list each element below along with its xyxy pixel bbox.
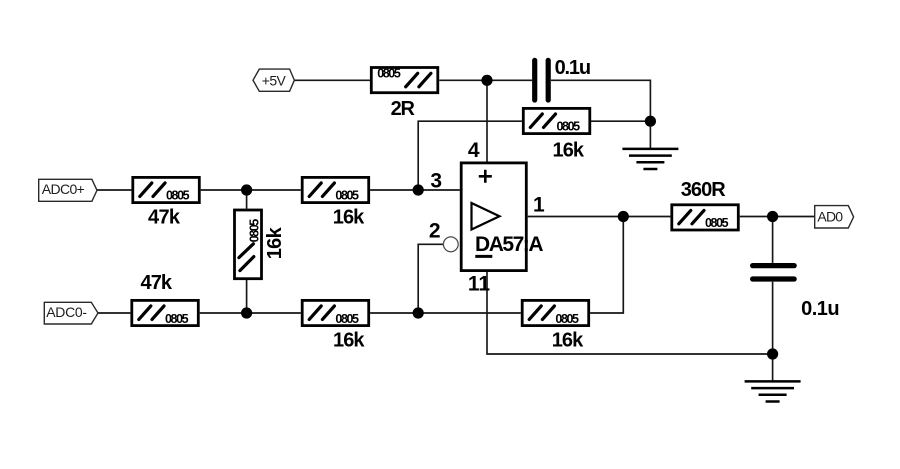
connector +5V (253, 69, 294, 91)
wire pin4 drop from +5V rail to op-amp top (486, 80, 488, 162)
wire feedback 16k (bottom) to output node (590, 217, 623, 314)
svg-text:1: 1 (533, 194, 545, 217)
wire op-amp pin11 to ground net (487, 272, 773, 354)
junction output / feedback bottom (618, 211, 629, 222)
op-amp triangle symbol (472, 203, 500, 230)
junction output / filter cap (767, 211, 778, 222)
resistor 16k (feedback top) (523, 108, 590, 133)
svg-text:16k: 16k (552, 330, 584, 352)
op-amp plus symbol (non-inverting marker) (479, 170, 492, 183)
wire capacitor right plate to right vertical, down to ground (551, 80, 650, 148)
wire ADC0- to 47k (bottom) (98, 312, 130, 314)
svg-text:0805: 0805 (166, 189, 190, 203)
wire feedback 16k (top) left end to pin3 node (418, 121, 522, 190)
junction feedback top / ground branch (645, 116, 656, 127)
junction at +5V rail / pin4 (481, 75, 492, 86)
svg-text:2: 2 (429, 219, 441, 242)
svg-text:16k: 16k (333, 329, 365, 351)
resistor 2R (2R 0805, rotated 180) (371, 67, 438, 93)
svg-text:16k: 16k (553, 139, 585, 161)
wire feedback 16k (top) right end to ground net (590, 120, 650, 122)
junction pin2 node (413, 307, 424, 318)
wire 16k bottom row to feedback 16k (bottom) (370, 312, 521, 314)
svg-text:0.1u: 0.1u (555, 57, 592, 79)
svg-text:ADC0-: ADC0- (46, 304, 87, 320)
resistor 16k (feedback bottom) (522, 300, 589, 325)
wire 360R to AD0 (740, 216, 815, 218)
connector AD0 (815, 206, 854, 228)
junction ground net / cap bottom (767, 348, 778, 359)
svg-text:0805: 0805 (335, 312, 359, 326)
wire 2R to capacitor 0.1u left plate (439, 79, 532, 81)
resistor 16k (bottom row middle) (302, 300, 369, 325)
svg-text:0805: 0805 (335, 189, 359, 203)
svg-text:3: 3 (430, 170, 442, 193)
wire op-amp pin2 bubble to bottom row node (418, 244, 444, 313)
wire 16k to op-amp pin3 (370, 189, 460, 191)
svg-text:0805: 0805 (705, 216, 729, 230)
resistor 47k (bottom row) (132, 300, 199, 325)
junction bottom row / vertical 16k bottom (241, 307, 252, 318)
op-amp DA57:A body (461, 163, 526, 271)
resistor 16k (top row middle) (302, 177, 369, 202)
svg-text:0805: 0805 (377, 67, 401, 81)
resistor 47k (top row) (133, 177, 200, 202)
wire 47k to 16k (top row) (201, 189, 301, 191)
svg-text:360R: 360R (681, 179, 727, 201)
svg-text:DA57:A: DA57:A (475, 233, 544, 256)
resistor 360R (672, 205, 739, 230)
svg-text:47k: 47k (141, 272, 173, 294)
svg-text:4: 4 (468, 139, 480, 162)
svg-text:+5V: +5V (262, 72, 287, 88)
ground (top right) (622, 149, 678, 169)
svg-text:0805: 0805 (248, 219, 262, 243)
capacitor 0.1u (top, vertical plates) (535, 60, 549, 100)
svg-text:0805: 0805 (557, 120, 581, 134)
svg-text:2R: 2R (391, 98, 416, 120)
op-amp pin2 inversion bubble (443, 237, 458, 252)
svg-text:0.1u: 0.1u (801, 298, 840, 320)
wire capacitor bottom plate to ground (772, 282, 774, 381)
svg-text:47k: 47k (148, 207, 181, 229)
junction top row / vertical 16k top (241, 184, 252, 195)
svg-text:11: 11 (468, 273, 491, 296)
svg-text:0805: 0805 (555, 312, 579, 326)
wire node A to vertical 16k top (246, 190, 248, 209)
svg-text:0805: 0805 (165, 312, 189, 326)
wire vertical 16k bottom to node B (246, 279, 248, 313)
junction pin3 node (413, 184, 424, 195)
ground (bottom right) (745, 381, 801, 401)
svg-text:16k: 16k (264, 226, 286, 259)
svg-text:AD0: AD0 (817, 208, 843, 224)
connector ADC0- (44, 302, 98, 324)
wire 47k to 16k (bottom row) (200, 312, 301, 314)
wire +5V to R 2R (294, 79, 370, 81)
wire output node down to capacitor 0.1u (bottom) (772, 217, 774, 263)
op-amp minus symbol (inverting marker) (475, 255, 492, 258)
wire ADC0+ to 47k (97, 189, 131, 191)
connector ADC0+ (39, 179, 97, 201)
resistor 16k (vertical) (235, 210, 262, 279)
wire op-amp pin1 output to 360R (528, 216, 671, 218)
capacitor 0.1u (bottom, horizontal plates) (753, 266, 795, 279)
svg-text:ADC0+: ADC0+ (42, 181, 85, 197)
svg-text:16k: 16k (333, 207, 365, 229)
